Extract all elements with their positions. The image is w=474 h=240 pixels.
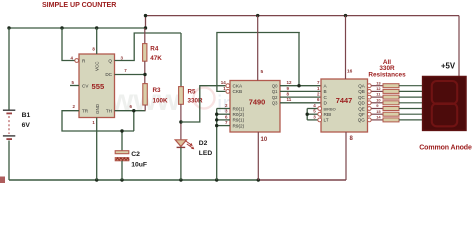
resistor R4 47K [143, 44, 147, 62]
wire 7490 R pin 3 stub [217, 113, 230, 115]
pin bubbles CKA CKB [226, 84, 230, 88]
wire segment a to display [399, 85, 423, 87]
output bubble QA [367, 84, 371, 88]
resistor R5 330R [179, 87, 184, 105]
wire 555 pin8 VCC [96, 28, 98, 54]
svg-text:LT: LT [324, 118, 329, 123]
wire segment b to display [399, 90, 423, 92]
LED D2 [175, 140, 186, 147]
svg-text:SIMPLE UP COUNTER: SIMPLE UP COUNTER [42, 1, 116, 9]
wire reset pins to ground [216, 109, 218, 181]
wire 7490 R pin 7 stub [217, 125, 230, 127]
wire LED node to 7490 CKA [181, 86, 226, 122]
svg-text:1: 1 [317, 86, 320, 91]
wire R3 bottom lead [144, 105, 146, 111]
svg-text:CKB: CKB [233, 89, 243, 94]
svg-text:12: 12 [287, 80, 293, 85]
svg-text:DC: DC [105, 72, 112, 77]
wire Q0 to A [280, 85, 321, 87]
svg-text:QB: QB [358, 89, 365, 94]
svg-text:12: 12 [376, 86, 381, 91]
svg-text:Q: Q [108, 59, 112, 64]
svg-text:QD: QD [358, 101, 366, 106]
wire BI RBI LT tie [306, 109, 308, 120]
wire 555 pin2 trigger loop [62, 111, 134, 131]
resistor 330R segment a [383, 84, 399, 88]
battery B1 6V [3, 109, 15, 111]
resistor 330R segment c [383, 95, 399, 99]
resistor R3 100K [143, 84, 148, 105]
op-amp U1 555 timer body [79, 54, 115, 118]
svg-text:2: 2 [73, 104, 76, 109]
wire +5V to display common anode [458, 16, 460, 77]
svg-text:QE: QE [358, 106, 365, 111]
wire segment c to display [399, 96, 423, 98]
wire 7447 pin 15 stub [371, 113, 383, 115]
svg-text:15: 15 [376, 109, 381, 114]
pin 4 reset bubble [75, 59, 79, 63]
svg-text:QA: QA [358, 84, 365, 89]
node +5V rail (red) [146, 15, 460, 17]
svg-text:555: 555 [92, 82, 105, 91]
output bubble QE [367, 107, 371, 111]
svg-text:47K: 47K [150, 55, 162, 62]
svg-text:Common Anode: Common Anode [419, 144, 472, 151]
svg-text:Resistances: Resistances [368, 72, 406, 79]
svg-text:TR: TR [82, 109, 89, 114]
svg-text:10: 10 [261, 137, 268, 143]
svg-text:C2: C2 [131, 151, 140, 158]
wire 555 pin7 discharge [115, 74, 146, 76]
svg-text:RBI: RBI [324, 112, 332, 117]
wire 7447 pin 4 stub [307, 108, 317, 110]
svg-text:13: 13 [376, 80, 381, 85]
wire 555 pin5 CV stub [70, 85, 79, 87]
output bubble QF [367, 112, 371, 116]
wire battery positive lead [8, 28, 10, 110]
svg-text:8: 8 [92, 46, 95, 51]
wire segment e to display [399, 108, 423, 110]
svg-text:QG: QG [358, 118, 366, 123]
svg-text:14: 14 [376, 115, 381, 120]
svg-text:100K: 100K [153, 97, 169, 104]
svg-text:10: 10 [376, 97, 381, 102]
svg-text:R0(1): R0(1) [233, 106, 245, 111]
wire C2 bottom lead [121, 161, 123, 180]
resistor 330R segment b [383, 89, 399, 93]
wire riser rail junction [145, 16, 147, 28]
svg-text:GND: GND [95, 103, 100, 114]
wire 7447 pin 10 stub [371, 102, 383, 104]
svg-text:11: 11 [287, 97, 292, 102]
wire Q1 to B [280, 90, 321, 92]
svg-text:7490: 7490 [249, 98, 265, 107]
svg-text:7447: 7447 [336, 96, 352, 105]
wire R5 bottom to LED [180, 104, 182, 140]
svg-text:7: 7 [225, 120, 228, 125]
svg-text:B1: B1 [22, 112, 31, 119]
counter U2 7490 body [230, 81, 280, 133]
svg-text:3: 3 [313, 114, 316, 119]
svg-text:5: 5 [313, 109, 316, 114]
wire R4 bottom to R3 top [144, 61, 146, 83]
svg-text:4: 4 [71, 56, 74, 61]
seven segment display common anode [423, 77, 466, 131]
output bubble QB [367, 90, 371, 94]
svg-text:3: 3 [121, 56, 124, 61]
svg-text:Q2: Q2 [272, 95, 278, 100]
svg-text:+5V: +5V [441, 61, 456, 70]
wire 7447 pin 9 stub [371, 108, 383, 110]
wire 7447 pin 11 stub [371, 96, 383, 98]
wire 555 pin1 ground [96, 118, 98, 181]
svg-text:9: 9 [376, 103, 379, 108]
svg-text:7: 7 [317, 80, 320, 85]
wire 555 pin3 output to node [115, 33, 182, 61]
svg-text:11: 11 [376, 92, 381, 97]
wire 555 output to 7490 CKB [217, 33, 300, 92]
svg-text:14: 14 [221, 80, 227, 85]
svg-text:10uF: 10uF [131, 162, 147, 169]
wire 7490 pin5 VCC [257, 16, 259, 81]
wire 7447 pin8 ground [345, 132, 347, 180]
svg-text:8: 8 [350, 136, 354, 142]
wire 7447 pin 5 stub [307, 113, 317, 115]
svg-text:Q1: Q1 [272, 89, 278, 94]
svg-text:2: 2 [317, 92, 320, 97]
wire Q0 riser to CKB net [298, 33, 300, 86]
wire LED cathode to ground [180, 147, 182, 180]
wire 7447 pin 14 stub [371, 119, 383, 121]
output bubble QD [367, 101, 371, 105]
svg-text:8: 8 [287, 92, 290, 97]
wire 7490 R pin 6 stub [217, 119, 230, 121]
svg-text:6V: 6V [22, 122, 31, 129]
svg-text:R4: R4 [150, 46, 159, 53]
wire threshold drop to trigger loop [133, 111, 135, 131]
decoder U3 7447 body [321, 79, 368, 132]
svg-text:6: 6 [317, 97, 320, 102]
svg-text:R9(2): R9(2) [233, 123, 245, 128]
wire segment d to display [399, 102, 423, 104]
svg-text:VCC: VCC [95, 61, 100, 71]
wire 7447 pin 13 stub [371, 85, 383, 87]
svg-text:5: 5 [72, 80, 75, 85]
wire 555 pin6 threshold [115, 110, 146, 112]
wire battery negative lead [8, 141, 10, 181]
resistor 330R segment f [383, 112, 399, 116]
ground rail [9, 179, 258, 181]
wire 555 pin4 reset from rail [62, 28, 75, 61]
svg-text:QC: QC [358, 95, 366, 100]
wire 7447 pin 3 stub [307, 119, 317, 121]
wire Q2 to C [280, 96, 321, 98]
resistor 330R segment g [383, 118, 399, 122]
node +6V rail (green) [9, 27, 146, 29]
svg-text:LED: LED [199, 150, 213, 157]
svg-text:QF: QF [359, 112, 366, 117]
svg-text:B: B [324, 89, 327, 94]
wire 7447 pin 12 stub [371, 90, 383, 92]
svg-text:5: 5 [261, 69, 264, 75]
wire segment f to display [399, 113, 423, 115]
svg-text:4: 4 [313, 103, 316, 108]
svg-text:330R: 330R [188, 97, 204, 104]
wire 7447 pin16 VCC [345, 16, 347, 79]
wire Q3 to D [280, 102, 321, 104]
capacitor C2 10uF [115, 151, 129, 154]
wire segment g to display [399, 119, 423, 121]
wire C2 top lead [121, 131, 123, 151]
svg-text:BIRBO: BIRBO [324, 106, 336, 111]
svg-text:R0(2): R0(2) [233, 112, 245, 117]
svg-text:R9(1): R9(1) [233, 118, 245, 123]
output bubble QG [367, 118, 371, 122]
svg-text:1: 1 [92, 120, 95, 125]
wire 7490 R pin 2 stub [217, 108, 230, 110]
svg-text:D2: D2 [199, 140, 208, 147]
svg-text:Q3: Q3 [272, 101, 278, 106]
svg-text:7: 7 [124, 68, 127, 73]
wire R4 top lead [144, 28, 146, 44]
svg-text:16: 16 [347, 69, 353, 75]
resistor 330R segment e [383, 107, 399, 111]
svg-text:TH: TH [106, 109, 112, 114]
svg-text:CKA: CKA [233, 84, 244, 89]
svg-text:R5: R5 [188, 89, 197, 96]
wire node to R5 top [180, 33, 182, 87]
output bubble QC [367, 95, 371, 99]
svg-text:R3: R3 [153, 87, 162, 94]
resistor 330R segment d [383, 101, 399, 105]
wire 7490 pin10 ground [257, 132, 259, 180]
svg-text:CV: CV [82, 83, 89, 88]
svg-text:Q0: Q0 [272, 84, 278, 89]
svg-text:9: 9 [287, 86, 290, 91]
